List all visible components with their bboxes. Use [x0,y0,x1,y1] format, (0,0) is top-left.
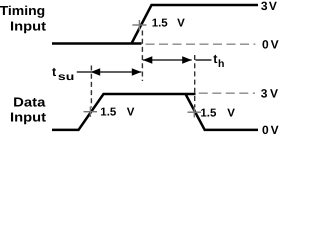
svg-text:0: 0 [262,123,269,136]
svg-text:Input: Input [10,109,47,124]
svg-text:h: h [218,58,224,70]
svg-text:0: 0 [262,37,269,51]
svg-text:1.5V: 1.5V [152,18,185,30]
timing input waveform [52,5,258,44]
t_su arrow [77,68,142,76]
svg-text:3: 3 [261,86,268,100]
vertical dashed: data falling edge [194,55,196,108]
svg-text:Data: Data [13,94,46,109]
svg-text:1.5V: 1.5V [100,106,134,118]
svg-text:V: V [271,37,279,51]
svg-text:su: su [58,71,74,83]
svg-text:3: 3 [261,0,268,13]
vertical dashed: timing edge [141,31,143,82]
cross mark: timing 1.5V [132,20,146,31]
svg-text:1.5V: 1.5V [200,107,235,119]
svg-text:V: V [270,86,278,100]
0V dashed line (timing) [146,43,256,45]
svg-text:V: V [271,123,279,136]
svg-text:t: t [52,65,57,79]
t_h arrow [143,56,212,64]
svg-text:V: V [269,0,277,13]
cross mark: data falling 1.5V [188,107,202,118]
data input waveform [52,94,258,130]
3V dashed line (data) [199,92,255,94]
cross mark: data rising 1.5V [84,106,98,117]
svg-text:Input: Input [10,19,47,34]
vertical dashed: data rising edge [90,66,92,108]
svg-text:Timing: Timing [0,3,45,18]
